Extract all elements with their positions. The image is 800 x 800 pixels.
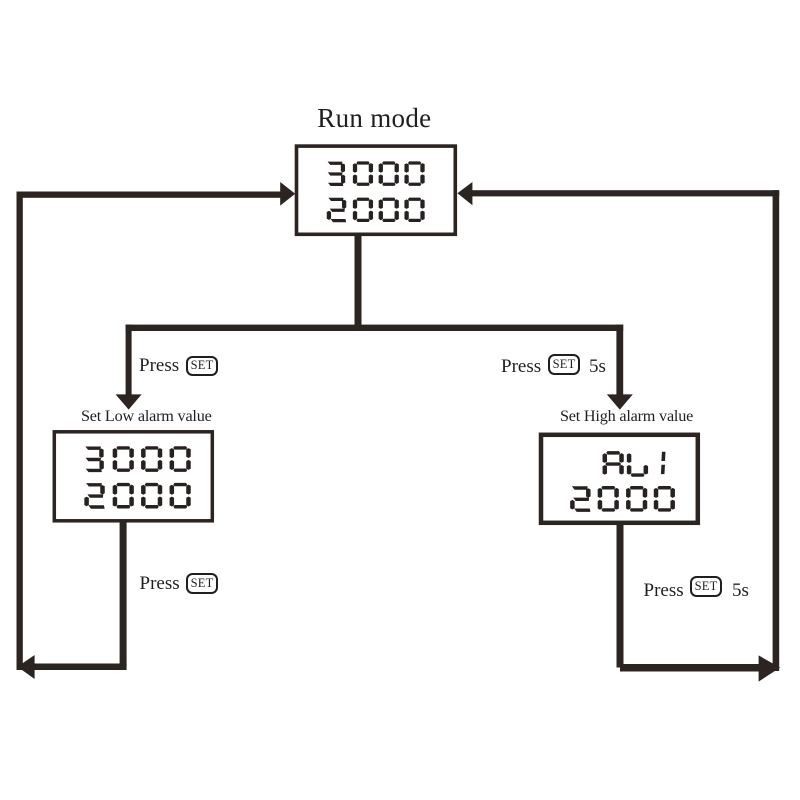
Set Low alarm display box <box>54 432 212 521</box>
label: Press (below Set-Low) <box>140 573 180 595</box>
label: 5s (below Set-High) <box>732 580 749 602</box>
arrowhead: left-pointing into Run mode box right edge <box>457 182 472 205</box>
wire: stub below Set-Low box <box>120 521 127 666</box>
button: SET (below Set-Low) <box>186 573 218 595</box>
arrowhead: right-pointing into Run mode box left edge <box>280 182 295 206</box>
wire: stub below Run mode box <box>355 235 362 331</box>
7-segment display row "3000" (Set Low, line 1) <box>85 446 190 472</box>
button: SET (left branch) <box>186 356 218 377</box>
label: Press (left branch) <box>139 355 179 377</box>
button: SET (right branch) <box>548 354 580 375</box>
Set High alarm display box <box>541 435 698 523</box>
wire: left branch vertical drop <box>126 325 132 396</box>
label: Set High alarm value <box>560 407 693 426</box>
7-segment display row "2000" (Run mode, line 2) <box>327 198 425 223</box>
7-segment display row "AL1" (Set High, line 1) <box>603 451 666 477</box>
label: Press (below Set-High) <box>644 580 684 602</box>
wire: stub below Set-High box <box>617 523 624 668</box>
wire: bottom-left horizontal from Set-Low box <box>20 664 127 671</box>
arrowhead: down into Set-High label <box>607 394 633 409</box>
Run mode display box <box>297 146 456 234</box>
7-segment display row "2000" (Set Low, line 2) <box>84 483 190 509</box>
label: 5s (right branch) <box>589 356 606 378</box>
label: Set Low alarm value <box>81 407 212 426</box>
label: Press (right branch) <box>501 356 541 378</box>
wire: left loop vertical riser <box>17 192 23 671</box>
wire: branch horizontal <box>126 325 624 331</box>
wire: left loop top horizontal into Run mode box <box>17 192 282 198</box>
7-segment display row "2000" (Set High, line 2) <box>570 486 675 512</box>
button: SET (below Set-High) <box>690 576 722 598</box>
wire: right branch vertical drop <box>616 325 623 396</box>
title: Run mode <box>317 103 431 134</box>
arrowhead: right-pointing at bottom-right corner <box>759 655 780 681</box>
arrowhead: left-pointing at bottom-left corner <box>18 655 35 679</box>
wire: right loop top horizontal from riser <box>471 190 779 196</box>
wire: right loop vertical riser <box>773 190 780 671</box>
arrowhead: down into Set-Low label <box>116 394 142 409</box>
7-segment display row "3000" (Run mode, line 1) <box>328 161 425 186</box>
wire: bottom-right horizontal from Set-High box <box>620 664 763 672</box>
